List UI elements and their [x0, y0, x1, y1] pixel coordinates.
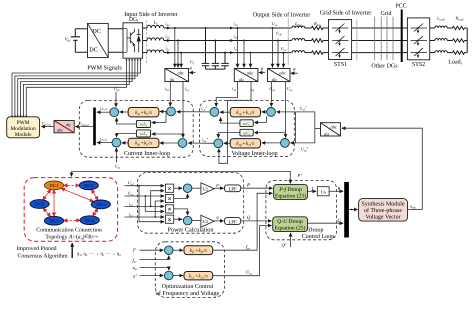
svg-text:Equation (25): Equation (25)	[275, 226, 306, 232]
svg-text:Ud,ref: Ud,ref	[100, 107, 107, 111]
comm link DG5-DG6	[43, 208, 50, 217]
svg-text:Uoq: Uoq	[115, 163, 121, 169]
wire: mult1 to sum P	[174, 187, 182, 189]
svg-text:Ud(q)ref: Ud(q)ref	[79, 122, 89, 127]
wire: Uod measurement into error sum	[270, 82, 272, 107]
comm link DG1-DGi	[61, 188, 93, 201]
svg-text:3/2: 3/2	[202, 186, 208, 191]
svg-text:P*: P*	[297, 173, 303, 178]
svg-text:kip+kii/s: kip+kii/s	[135, 110, 152, 116]
transform block abc->dq (output voltages)	[268, 69, 291, 82]
block wCf 1	[240, 120, 253, 127]
wire: U to synthesis bar	[308, 222, 344, 224]
wire: Uod tap to wCf1	[255, 116, 267, 122]
svg-text:ωLf: ωLf	[140, 122, 148, 128]
svg-text:DC: DC	[89, 47, 98, 54]
PI block voltage q	[230, 139, 260, 148]
dashed box: Droop Control Loop	[266, 181, 337, 240]
svg-text:ku1+ku2/s: ku1+ku2/s	[189, 274, 208, 280]
capacitor Cf phase c	[221, 53, 229, 70]
bus bar: theta/U collection	[344, 182, 349, 238]
wire: iLd tap to wLf1	[152, 112, 166, 123]
wire STS2 to load phase c	[430, 52, 435, 54]
wire: output sum d to bus bar	[97, 111, 110, 113]
svg-text:Q*: Q*	[282, 243, 287, 248]
svg-text:Uav: Uav	[246, 270, 253, 276]
svg-text:PWM Signals: PWM Signals	[87, 65, 122, 72]
summing junction voltage q error	[281, 139, 290, 148]
wire: wLf1 to top output sum	[117, 118, 137, 124]
svg-text:uabc: uabc	[410, 204, 417, 210]
wire: error sum q to PI vq	[262, 142, 281, 144]
wire: wCf2 to q output sum	[218, 133, 240, 138]
PI block current d	[128, 108, 159, 117]
wire: load common return	[466, 28, 468, 53]
wire: uabc feedback into abc->dq	[342, 128, 422, 209]
comm link DGi-DG4	[93, 209, 98, 216]
svg-text:Vdc: Vdc	[65, 37, 71, 43]
summing junction P	[183, 184, 192, 193]
inductor Lline phase a	[292, 26, 305, 28]
svg-text:iLd*: iLd*	[201, 106, 207, 112]
svg-text:Current Inner-loop: Current Inner-loop	[124, 150, 170, 157]
wire: P to P-f droop	[241, 187, 273, 189]
inductor Lload phase c	[435, 51, 447, 53]
wire: Q* reference	[290, 233, 292, 247]
resistor Rline phase c	[312, 51, 324, 54]
svg-text:q: q	[216, 214, 219, 219]
wire: Uav to Q-U droop	[213, 226, 272, 276]
svg-text:Equation (23): Equation (23)	[275, 193, 306, 199]
inductor Lload phase b	[435, 39, 447, 41]
inductor Lf phase b	[147, 38, 164, 41]
svg-text:ioq: ioq	[129, 211, 133, 217]
svg-text:Grid: Grid	[381, 10, 392, 17]
inductor Lline phase b	[292, 38, 305, 40]
svg-text:DGi: DGi	[129, 17, 138, 23]
switch STS2	[407, 18, 429, 60]
svg-text:DC: DC	[92, 28, 101, 35]
svg-text:Other DGs: Other DGs	[371, 63, 398, 70]
svg-text:of Three-phrase: of Three-phrase	[364, 207, 402, 214]
multiplier 4	[165, 215, 173, 223]
wire: PI vq to output sum q	[224, 142, 230, 144]
wire: f to integrator	[308, 190, 317, 192]
svg-text:abc: abc	[247, 70, 254, 75]
capacitor Cf phase a	[202, 28, 210, 69]
wire: voltage loop q output to current loop	[188, 142, 214, 144]
node DG5	[44, 216, 63, 225]
wire: reference routing rectangle	[296, 112, 315, 143]
capacitor Cf phase b	[212, 41, 220, 70]
svg-text:u*: u*	[133, 273, 137, 278]
svg-text:Communication Connection: Communication Connection	[36, 228, 102, 234]
svg-text:Optimization Control: Optimization Control	[162, 283, 214, 290]
svg-text:iLq*: iLq*	[202, 137, 208, 143]
svg-text:Lline: Lline	[294, 21, 302, 27]
wire: iLd drop into loop	[169, 82, 171, 106]
wire: gain to LPF Q	[214, 220, 223, 222]
wire: inverter phase a	[143, 27, 147, 29]
svg-text:Uod*: Uod*	[299, 105, 306, 111]
transform block abc->dq (inductor currents)	[165, 69, 189, 82]
svg-text:Improved Pinned: Improved Pinned	[16, 245, 56, 252]
wire: STS1 to STS2 three phases	[352, 27, 408, 29]
svg-text:θ: θ	[261, 66, 264, 71]
wire bundle: PWM gate signals	[11, 58, 142, 117]
svg-text:Rloadi: Rloadi	[454, 16, 463, 22]
block wLf 1	[136, 120, 150, 127]
wire: Uoq into multipliers	[125, 195, 165, 197]
wire: mult3 to sum Q	[174, 209, 188, 215]
svg-text:Uoq: Uoq	[128, 190, 134, 196]
wire to load common	[465, 52, 468, 54]
wire: f* input	[140, 249, 164, 251]
svg-text:Uoq*: Uoq*	[301, 147, 308, 153]
wire	[447, 40, 452, 42]
wire: Uo taps	[272, 28, 274, 67]
comm link DG4-DG5 (pinned)	[64, 219, 81, 221]
block Q-U Droop Equation	[273, 217, 308, 232]
current arrow iLb	[167, 39, 171, 42]
block wLf 2	[136, 130, 150, 137]
wire: fav input	[140, 256, 169, 260]
PI block current q	[128, 138, 159, 147]
wire: iL taps	[174, 28, 176, 67]
wire: LC filter phase c	[164, 52, 292, 54]
dashed box: Power Calculation	[137, 172, 243, 233]
summing junction: current loop q-axis output	[112, 138, 121, 147]
wire: Q to Q-U droop	[241, 220, 272, 222]
battery Vdc	[71, 29, 80, 53]
svg-text:Q: Q	[247, 215, 251, 221]
svg-text:Control Loop: Control Loop	[302, 233, 335, 240]
wire: iod into multipliers	[125, 205, 165, 207]
PI block frequency restoration	[184, 246, 213, 255]
summing junction voltage d output	[210, 108, 219, 117]
wire: Uoq* reference	[291, 142, 296, 144]
wire: fav to P-f droop	[213, 193, 273, 250]
svg-text:of Frequency and Voltage: of Frequency and Voltage	[156, 290, 220, 297]
comm link DG1-DG5	[53, 190, 55, 217]
wire: voltage loop d output to current loop	[177, 111, 210, 113]
svg-text:ωLf: ωLf	[140, 131, 148, 137]
dashed box: Optimization Control	[155, 242, 224, 298]
multiplier 3	[165, 205, 173, 213]
wire: output sum q to bus bar	[97, 142, 112, 144]
svg-text:fav: fav	[246, 244, 251, 250]
transform block abc->dq (voltage vector feedback)	[321, 123, 341, 136]
wire	[447, 27, 452, 29]
svg-text:f*: f*	[133, 248, 136, 253]
svg-text:Uod: Uod	[128, 180, 134, 186]
svg-text:Output Side of Inverter: Output Side of Inverter	[253, 12, 311, 19]
wire: sum to PI u	[173, 275, 183, 277]
current arrow ioc	[230, 51, 234, 54]
resistor Rload phase a	[453, 26, 465, 29]
junction	[214, 40, 216, 42]
wire	[447, 52, 452, 54]
node DG6	[30, 200, 49, 209]
wire: PI vd to output sum	[220, 111, 230, 113]
svg-text:Uoq: Uoq	[287, 86, 293, 92]
wire: sum to gain Q	[192, 220, 201, 222]
svg-text:abc: abc	[331, 125, 338, 130]
wire: battery to DC/DC converter	[75, 29, 87, 53]
bus bar (voltage reference)	[93, 108, 96, 146]
svg-text:Grid Side of Inverter: Grid Side of Inverter	[320, 10, 372, 17]
block wCf 2	[240, 129, 253, 136]
svg-text:kf1+kf2/s: kf1+kf2/s	[190, 248, 207, 254]
comm link DG2-DGi	[92, 190, 99, 201]
current arrow ioa	[230, 27, 234, 30]
svg-text:PCC: PCC	[395, 4, 406, 10]
svg-text:DGi: DGi	[97, 202, 106, 207]
dashed box: Current Inner-loop	[79, 100, 193, 157]
wire: synthesis output uabc	[408, 209, 423, 211]
separator: output side	[287, 18, 289, 65]
wire to load common	[465, 27, 468, 29]
svg-text:DG1: DG1	[50, 183, 60, 188]
wire: inverter phase c	[143, 52, 147, 54]
svg-text:Synthesis Module: Synthesis Module	[361, 200, 405, 207]
integrator 1/s	[317, 187, 329, 196]
resistor Rload phase c	[453, 51, 465, 54]
svg-text:×: ×	[167, 206, 171, 214]
wire to STS1 phase a	[323, 27, 329, 29]
filter LPF Q	[225, 218, 241, 225]
transform block dq->abc (modulation reference)	[54, 121, 74, 133]
wire: io taps	[237, 28, 239, 67]
svg-text:abc: abc	[177, 70, 184, 75]
resistor Rline phase a	[312, 26, 324, 29]
current arrow iob	[230, 39, 234, 42]
PI block voltage restoration	[184, 272, 213, 280]
current arrow iLa	[167, 27, 171, 30]
wire: wLf2 to bottom output sum	[117, 133, 137, 137]
wire: Uod feedforward into top sum	[115, 92, 117, 107]
svg-text:fav: fav	[133, 257, 138, 263]
svg-text:θ: θ	[190, 66, 193, 71]
svg-text:DG4: DG4	[85, 218, 95, 223]
wire: iod feedforward	[216, 82, 237, 107]
svg-text:×: ×	[167, 185, 171, 193]
svg-text:×: ×	[167, 216, 171, 224]
arrow: consensus algorithm to topology	[71, 246, 73, 258]
wire: Uod into multipliers	[125, 185, 165, 187]
gain 3/2 block Q	[201, 215, 214, 227]
wire: ioq feedforward (hook below box)	[219, 82, 251, 164]
wire: dq->abc to PWM module	[42, 126, 55, 128]
wire: Uod* reference	[277, 111, 296, 113]
summing junction: current loop d-axis error	[167, 107, 176, 116]
node: Other DG feeders	[375, 17, 393, 61]
comm link DG1-DG6	[43, 190, 51, 200]
inductor Lf phase a	[147, 25, 164, 28]
node DGi	[91, 200, 110, 209]
wire: PI q to output sum q	[122, 142, 128, 144]
junction	[224, 52, 226, 54]
block Synthesis Module	[359, 199, 408, 222]
bus PCC	[401, 10, 403, 63]
wire: multiplier cross input	[151, 191, 164, 207]
inverter U1 DGi	[123, 17, 143, 58]
wire	[305, 40, 312, 42]
wire: gain to LPF P	[214, 187, 223, 189]
node DG1	[44, 181, 63, 190]
svg-text:Lloadi: Lloadi	[436, 16, 445, 22]
svg-text:kvp+kvi/s: kvp+kvi/s	[236, 110, 254, 116]
svg-text:ωCf: ωCf	[243, 121, 251, 127]
svg-text:Loadi: Loadi	[448, 59, 461, 66]
PI block voltage d	[230, 108, 260, 117]
svg-text:dq: dq	[272, 77, 277, 82]
svg-text:abc: abc	[279, 70, 286, 75]
svg-text:LPF: LPF	[228, 187, 237, 193]
svg-text:iLc: iLc	[166, 46, 171, 52]
svg-text:η1, η2 ⋯ → ηi ⋯ → ηn: η1, η2 ⋯ → ηi ⋯ → ηn	[77, 252, 121, 257]
svg-text:Droop: Droop	[308, 227, 323, 233]
wire: theta to synthesis bar	[329, 190, 343, 192]
svg-text:θ: θ	[293, 67, 296, 72]
svg-text:iLb: iLb	[165, 34, 170, 40]
svg-text:STS1: STS1	[334, 62, 347, 68]
wire: iLq drop into loop	[182, 82, 184, 138]
wire: Uoq feedforward into bottom sum	[115, 148, 117, 162]
svg-text:uav: uav	[133, 265, 139, 271]
wire: multiplier cross input	[155, 201, 164, 217]
wire: P* branch to topology	[71, 171, 73, 176]
svg-text:kip+kii/s: kip+kii/s	[135, 141, 152, 147]
wire	[305, 27, 312, 29]
wire to load common	[465, 40, 468, 42]
svg-text:dq: dq	[239, 77, 244, 82]
node DG4	[80, 216, 99, 225]
node DG2	[79, 181, 98, 190]
resistor Rline phase b	[312, 39, 324, 42]
separator after STS1	[356, 20, 358, 61]
summing junction: current loop q-axis error	[178, 139, 187, 148]
wire to STS1 phase b	[323, 40, 329, 42]
svg-text:Uabc,ref: Uabc,ref	[42, 121, 52, 126]
wire: abc/dq output to rectangle	[315, 128, 321, 130]
summing junction: current loop d-axis output	[110, 108, 119, 117]
wire: LC filter phase a	[164, 27, 292, 29]
svg-text:kvp+kvi/s: kvp+kvi/s	[236, 141, 254, 147]
wire: error sum to PI vd	[262, 111, 267, 113]
wire: error sum q to PI q	[160, 142, 178, 144]
svg-text:Lf: Lf	[153, 20, 159, 26]
svg-text:Module: Module	[15, 132, 32, 138]
filter LPF P	[225, 185, 241, 192]
svg-text:iod: iod	[129, 201, 133, 207]
wire: multiplier cross input	[145, 196, 164, 211]
svg-text:Uoc: Uoc	[281, 46, 287, 52]
svg-text:p: p	[215, 182, 219, 187]
summing junction frequency	[165, 246, 174, 255]
svg-text:DG2: DG2	[84, 183, 94, 188]
gain 3/2 block P	[201, 183, 214, 195]
DC/DC converter	[88, 23, 109, 57]
dashed red box: communication topology	[24, 178, 117, 242]
wire: ioq into multipliers	[125, 216, 165, 218]
summing junction Q	[183, 216, 192, 225]
wire: LC filter phase b	[164, 40, 292, 42]
wire: multiplier cross input	[139, 186, 164, 222]
svg-text:Consensus Algorithm: Consensus Algorithm	[17, 252, 68, 259]
svg-text:Uoa: Uoa	[272, 21, 278, 27]
wire STS2 to load phase b	[430, 40, 435, 42]
svg-text:Rline: Rline	[313, 21, 322, 27]
wire: uav input	[140, 268, 169, 270]
svg-text:ωCf: ωCf	[243, 130, 251, 136]
resistor Rload phase b	[453, 39, 465, 42]
wire: inverter phase b	[143, 40, 147, 42]
wire: error sum to PI d	[160, 111, 167, 113]
svg-text:iLa: iLa	[165, 21, 170, 27]
wire: u* input	[140, 275, 164, 277]
separator: input side dashed	[146, 21, 148, 64]
svg-text:LPF: LPF	[228, 219, 237, 225]
wire: wCf1 to d output sum	[221, 118, 240, 124]
svg-text:Uob: Uob	[276, 31, 282, 37]
svg-text:ioa: ioa	[234, 21, 239, 27]
inductor Lload phase a	[435, 26, 447, 28]
svg-text:iLq: iLq	[185, 86, 190, 92]
svg-text:STS2: STS2	[412, 62, 425, 68]
multiplier 2	[165, 194, 173, 202]
svg-text:Topology A=(aij)∈Rn×n: Topology A=(aij)∈Rn×n	[45, 233, 98, 240]
svg-text:DG5: DG5	[50, 218, 60, 223]
svg-text:DG6: DG6	[35, 202, 45, 207]
svg-text:3/2: 3/2	[202, 219, 208, 224]
svg-text:P-f Droop: P-f Droop	[278, 187, 302, 193]
wire: sum to PI f	[173, 249, 183, 251]
inductor Lline phase c	[292, 51, 305, 53]
summing junction voltage	[165, 271, 174, 280]
wire to STS1 phase c	[323, 52, 329, 54]
svg-text:abc: abc	[57, 128, 63, 133]
summing junction voltage q output	[214, 139, 223, 148]
svg-text:dq: dq	[170, 77, 175, 82]
svg-text:1/s: 1/s	[320, 190, 326, 196]
switch STS1	[329, 20, 352, 60]
svg-text:Voltage Vector: Voltage Vector	[365, 213, 400, 220]
transform block abc->dq (output currents)	[234, 69, 258, 82]
wire: bus bar to dq->abc	[76, 126, 94, 128]
wire: DC link to inverter DGi	[108, 29, 123, 53]
PWM Modulation Module	[7, 117, 40, 138]
wire: PI d to output sum	[120, 111, 129, 113]
svg-text:P: P	[246, 182, 250, 188]
wire: Uoq tap to wCf2	[255, 133, 286, 136]
svg-text:ioq: ioq	[250, 86, 254, 92]
svg-text:Power Calculation: Power Calculation	[168, 227, 214, 234]
svg-text:Cf: Cf	[190, 59, 195, 65]
wire: bar to synthesis module	[349, 209, 358, 211]
wire: sum to gain P	[192, 187, 201, 189]
inductor Lf phase c	[147, 50, 164, 53]
svg-text:dq: dq	[324, 131, 329, 136]
svg-text:iod: iod	[232, 86, 236, 92]
wire STS2 to load phase a	[430, 27, 435, 29]
multiplier 1	[165, 184, 173, 192]
svg-text:Q-U Droop: Q-U Droop	[277, 219, 303, 225]
wire: iLq tap to wLf2	[152, 133, 183, 135]
dashed box: Voltage Inner-loop	[199, 100, 294, 156]
wire	[305, 52, 312, 54]
comm link DG1-DG2 (pinned)	[64, 184, 80, 186]
